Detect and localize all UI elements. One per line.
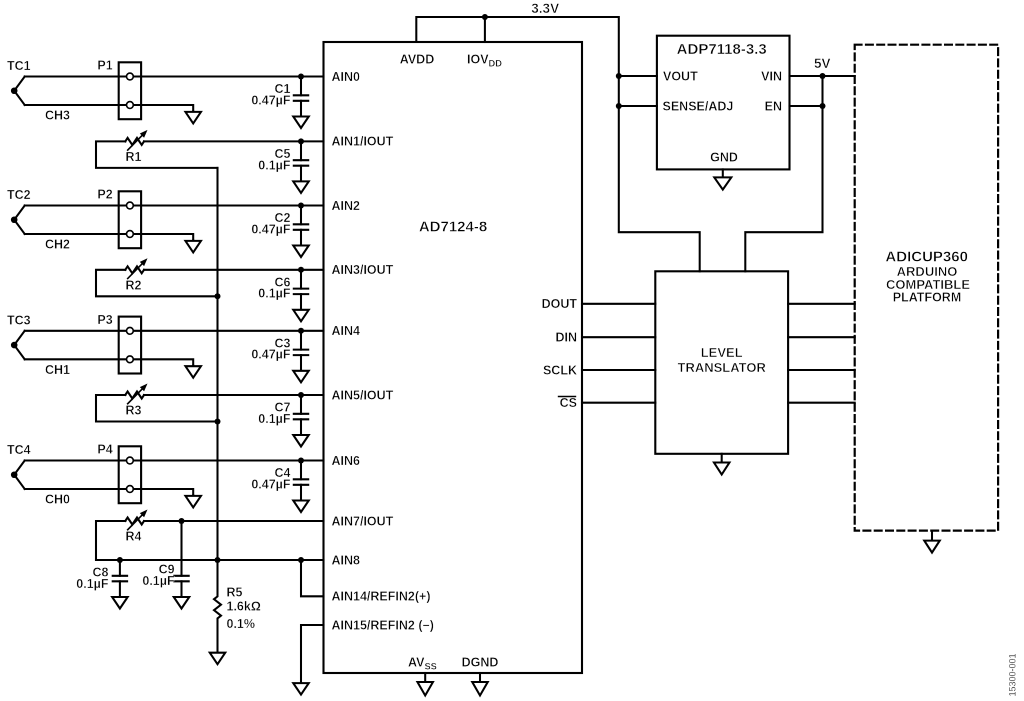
svg-text:CH3: CH3	[45, 109, 70, 123]
ground TC1 return	[185, 111, 201, 123]
svg-text:R2: R2	[126, 278, 142, 292]
capacitor C6 0.1µF	[258, 267, 308, 322]
svg-text:0.47µF: 0.47µF	[251, 348, 291, 362]
wire TC4+ to AIN6	[25, 459, 324, 461]
svg-text:AIN15/REFIN2 (−): AIN15/REFIN2 (−)	[332, 618, 434, 632]
wire DOUT AD7124 to level translator	[582, 303, 655, 305]
resistor R4 (variable)	[125, 510, 147, 544]
wire R3 left leg to bus	[96, 395, 218, 422]
wire TC2+ to AIN2	[25, 204, 324, 206]
wire TC3- return	[25, 359, 194, 366]
wire DOUT level translator to ADICUP360	[788, 303, 855, 305]
svg-text:0.1µF: 0.1µF	[76, 577, 109, 591]
capacitor C7 0.1µF	[258, 392, 308, 447]
svg-text:0.47µF: 0.47µF	[251, 93, 291, 107]
svg-text:DOUT: DOUT	[542, 297, 578, 311]
wire EN to 5V vertical	[790, 105, 823, 107]
block ADICUP360 platform (dashed)	[855, 45, 998, 531]
svg-text:TRANSLATOR: TRANSLATOR	[678, 360, 767, 375]
ground level translator	[714, 454, 730, 475]
IC U1 AD7124-8 sigma-delta ADC	[324, 42, 583, 673]
junction VOUT on 3.3V vertical	[616, 73, 622, 79]
connector P2	[97, 188, 141, 249]
regulator ADP7118-3.3 box	[657, 36, 790, 170]
svg-text:0.1µF: 0.1µF	[142, 574, 175, 588]
svg-text:R5: R5	[227, 586, 243, 600]
resistor R2 (variable)	[125, 258, 147, 292]
junction bus on AIN8 line	[215, 557, 221, 563]
svg-text:R4: R4	[126, 530, 142, 544]
svg-text:0.47µF: 0.47µF	[251, 222, 291, 236]
wire VOUT to 3.3V rail	[619, 75, 657, 77]
wire R4 right to pin	[144, 520, 324, 522]
wire R4 left leg to AIN8 line	[96, 521, 125, 560]
svg-text:DGND: DGND	[462, 656, 499, 670]
wire R1 left leg to bus	[96, 141, 218, 168]
svg-text:TC4: TC4	[7, 443, 31, 457]
resistor R5 1.6k 0.1%	[210, 560, 261, 664]
svg-text:CH1: CH1	[45, 363, 70, 377]
wire VIN to 5V from ADICUP360	[790, 75, 855, 77]
wire 5V down to level translator	[745, 76, 822, 271]
wire AIN8 line	[96, 559, 324, 561]
block level translator	[655, 271, 788, 454]
label ADICUP360	[885, 249, 970, 305]
junction EN on 5V vertical	[820, 103, 826, 109]
connector P3	[97, 313, 141, 374]
svg-text:0.47µF: 0.47µF	[251, 477, 291, 491]
svg-text:AIN14/REFIN2(+): AIN14/REFIN2(+)	[332, 590, 431, 604]
ground TC2 return	[185, 240, 201, 252]
svg-text:AIN1/IOUT: AIN1/IOUT	[332, 135, 394, 149]
wire reference bus vertical	[216, 168, 218, 560]
svg-text:AD7124-8: AD7124-8	[419, 219, 487, 236]
connector P1	[97, 59, 141, 120]
wire SENSE/ADJ to 3.3V vertical	[619, 105, 657, 107]
overline on CS	[559, 396, 576, 398]
svg-text:EN: EN	[765, 99, 782, 113]
wire 3.3V rail from AVDD/IOVDD to regulator and level translator	[416, 17, 699, 271]
connector P4	[97, 443, 141, 504]
wire C9 tap from AIN7/IOUT line	[180, 521, 182, 557]
capacitor C1 0.47µF	[251, 74, 308, 129]
thermocouple TC4	[7, 443, 31, 489]
svg-text:5V: 5V	[814, 56, 831, 71]
svg-text:0.1µF: 0.1µF	[258, 158, 291, 172]
capacitor C4 0.47µF	[251, 458, 308, 513]
svg-text:VIN: VIN	[761, 69, 782, 83]
svg-text:SENSE/ADJ: SENSE/ADJ	[663, 99, 734, 113]
svg-text:15300-001: 15300-001	[1007, 653, 1017, 696]
svg-text:AIN6: AIN6	[332, 454, 361, 468]
svg-text:ADP7118-3.3: ADP7118-3.3	[677, 41, 767, 58]
svg-text:P3: P3	[97, 313, 112, 327]
svg-text:0.1%: 0.1%	[227, 617, 256, 631]
capacitor C2 0.47µF	[251, 203, 308, 258]
wire TC1+ to AIN0	[25, 75, 324, 77]
svg-text:CS: CS	[560, 396, 577, 410]
svg-text:1.6kΩ: 1.6kΩ	[227, 600, 261, 614]
wire TC3+ to AIN4	[25, 330, 324, 332]
thermocouple TC1	[7, 59, 31, 105]
thermocouple TC2	[7, 188, 31, 234]
resistor R1 (variable)	[125, 130, 147, 164]
svg-text:TC2: TC2	[7, 188, 31, 202]
label LEVEL TRANSLATOR	[678, 345, 767, 375]
ground TC4 return	[185, 495, 201, 507]
wire R3 right to pin	[144, 394, 324, 396]
junction C9 on AIN7 line	[179, 518, 185, 524]
resistor R3 (variable)	[125, 384, 147, 418]
svg-text:AIN0: AIN0	[332, 70, 361, 84]
svg-text:AIN2: AIN2	[332, 199, 361, 213]
svg-text:P4: P4	[97, 443, 112, 457]
svg-text:GND: GND	[710, 151, 738, 165]
wire CS AD7124 to level translator	[582, 402, 655, 404]
wire TC2- return	[25, 234, 194, 241]
ground AIN15	[293, 683, 309, 695]
svg-text:AIN8: AIN8	[332, 553, 361, 567]
svg-text:0.1µF: 0.1µF	[258, 412, 291, 426]
svg-text:AIN3/IOUT: AIN3/IOUT	[332, 263, 394, 277]
capacitor C9 0.1µF	[142, 557, 189, 609]
wire TC1- return	[25, 105, 194, 112]
svg-text:AIN5/IOUT: AIN5/IOUT	[332, 388, 394, 402]
svg-text:CH2: CH2	[45, 238, 70, 252]
wire SCLK level translator to ADICUP360	[788, 369, 855, 371]
wire DIN level translator to ADICUP360	[788, 336, 855, 338]
ground ADICUP360	[924, 531, 940, 553]
svg-text:VOUT: VOUT	[663, 69, 698, 83]
junction SENSE/ADJ on 3.3V vertical	[616, 103, 622, 109]
wire R2 left leg to bus	[96, 270, 218, 297]
junction R3 leg on bus	[215, 419, 221, 425]
svg-text:SCLK: SCLK	[543, 363, 577, 377]
svg-text:3.3V: 3.3V	[531, 1, 559, 16]
svg-text:R1: R1	[126, 150, 142, 164]
wire R2 right to pin	[144, 269, 324, 271]
capacitor C5 0.1µF	[258, 138, 308, 193]
svg-text:R3: R3	[126, 404, 142, 418]
svg-text:AIN4: AIN4	[332, 324, 361, 338]
junction 5V node	[820, 73, 826, 79]
svg-text:AVDD: AVDD	[400, 53, 435, 67]
wire TC4- return	[25, 489, 194, 496]
ground ADP7118 GND	[714, 169, 731, 189]
capacitor C3 0.47µF	[251, 328, 308, 383]
ground TC3 return	[185, 366, 201, 378]
wire R1 right to pin	[144, 140, 324, 142]
svg-text:P1: P1	[97, 59, 112, 73]
svg-text:0.1µF: 0.1µF	[258, 287, 291, 301]
svg-text:CH0: CH0	[45, 493, 70, 507]
ground DGND	[472, 673, 488, 696]
wire IOVDD stub	[484, 17, 486, 42]
wire CS level translator to ADICUP360	[788, 402, 855, 404]
junction R2 leg on bus	[215, 293, 221, 299]
svg-text:LEVEL: LEVEL	[701, 345, 743, 360]
junction AIN14 tap on AIN8 line	[298, 557, 304, 563]
ground AVSS	[417, 673, 433, 696]
wire SCLK AD7124 to level translator	[582, 369, 655, 371]
junction IOVDD on 3.3V rail	[482, 14, 488, 20]
svg-text:P2: P2	[97, 188, 112, 202]
svg-text:AIN7/IOUT: AIN7/IOUT	[332, 514, 394, 528]
capacitor C8 0.1µF	[76, 557, 127, 609]
thermocouple TC3	[7, 313, 31, 359]
svg-text:TC3: TC3	[7, 313, 31, 327]
wire DIN AD7124 to level translator	[582, 336, 655, 338]
svg-text:DIN: DIN	[555, 331, 577, 345]
wire AIN15/REFIN2(-) to ground	[301, 625, 324, 683]
wire AIN8 to AIN14/REFIN2(+)	[301, 560, 324, 596]
svg-text:TC1: TC1	[7, 59, 31, 73]
svg-text:PLATFORM: PLATFORM	[893, 291, 962, 305]
